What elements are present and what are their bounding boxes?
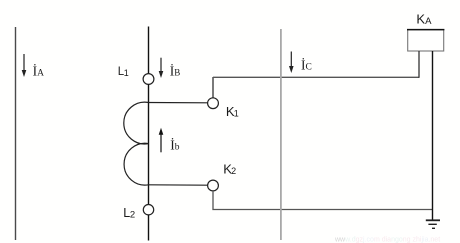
- relay KA box: [407, 30, 444, 51]
- svg-text:KA: KA: [416, 12, 432, 27]
- ground: [426, 220, 440, 228]
- svg-text:İC: İC: [301, 57, 312, 72]
- svg-text:İA: İA: [33, 63, 45, 78]
- wire B to K2: [149, 184, 208, 186]
- terminal L2: [143, 205, 153, 215]
- watermark: [334, 237, 440, 243]
- wire phase C line: [280, 29, 282, 240]
- svg-text:K2: K2: [223, 161, 236, 176]
- terminal L1: [143, 74, 154, 85]
- svg-text:L1: L1: [118, 66, 129, 78]
- arrow IC: [289, 52, 294, 74]
- terminal K1: [208, 98, 219, 109]
- svg-text:www.dgzj.com diangong zhijia.n: www.dgzj.com diangong zhijia.net: [334, 237, 440, 243]
- wire KA left lead: [418, 51, 420, 78]
- svg-text:K1: K1: [226, 104, 239, 119]
- svg-text:L2: L2: [123, 206, 135, 221]
- wire K1 to KA: [213, 76, 419, 78]
- terminal K2: [208, 180, 219, 191]
- wire phase B bottom segment: [148, 215, 150, 241]
- wire B to K1: [149, 102, 208, 104]
- wire phase B top segment: [148, 27, 150, 74]
- svg-text:İb: İb: [170, 137, 180, 152]
- wire phase B middle segment: [148, 84, 150, 204]
- arrow Ib: [159, 128, 164, 153]
- wire KA right lead to ground: [432, 51, 434, 220]
- svg-text:İB: İB: [170, 63, 181, 78]
- arrow IA: [22, 54, 27, 77]
- wire phase A line: [15, 27, 17, 240]
- wire K2 down to ground bus: [213, 191, 433, 210]
- arrow IB: [159, 58, 164, 78]
- coil primary arcs: [124, 102, 149, 185]
- wire K1 stub up: [212, 77, 214, 98]
